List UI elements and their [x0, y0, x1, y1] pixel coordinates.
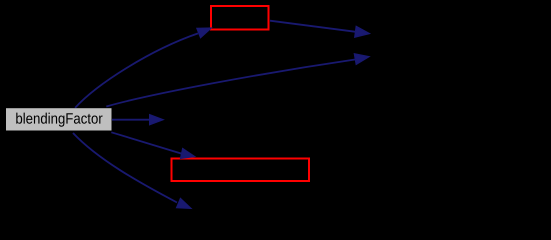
edge box1->right hidden node (straight arrow): [270, 21, 370, 38]
edge blendingFactor->box2 (gentle curved arrow down): [111, 132, 195, 158]
node box2 (red outlined box, hidden label): [172, 159, 310, 182]
edge blendingFactor->hidden node (short horizontal arrow): [112, 115, 164, 125]
node blendingFactor (grey box with label): [6, 108, 112, 130]
edge blendingFactor->bottom hidden node (curved arrow down): [73, 133, 191, 209]
node box1 (red outlined box, hidden label): [211, 6, 269, 30]
edge blendingFactor->box1 (curved arrow up): [75, 28, 212, 108]
edge blendingFactor->second right hidden node (long straight arrow): [106, 54, 369, 107]
